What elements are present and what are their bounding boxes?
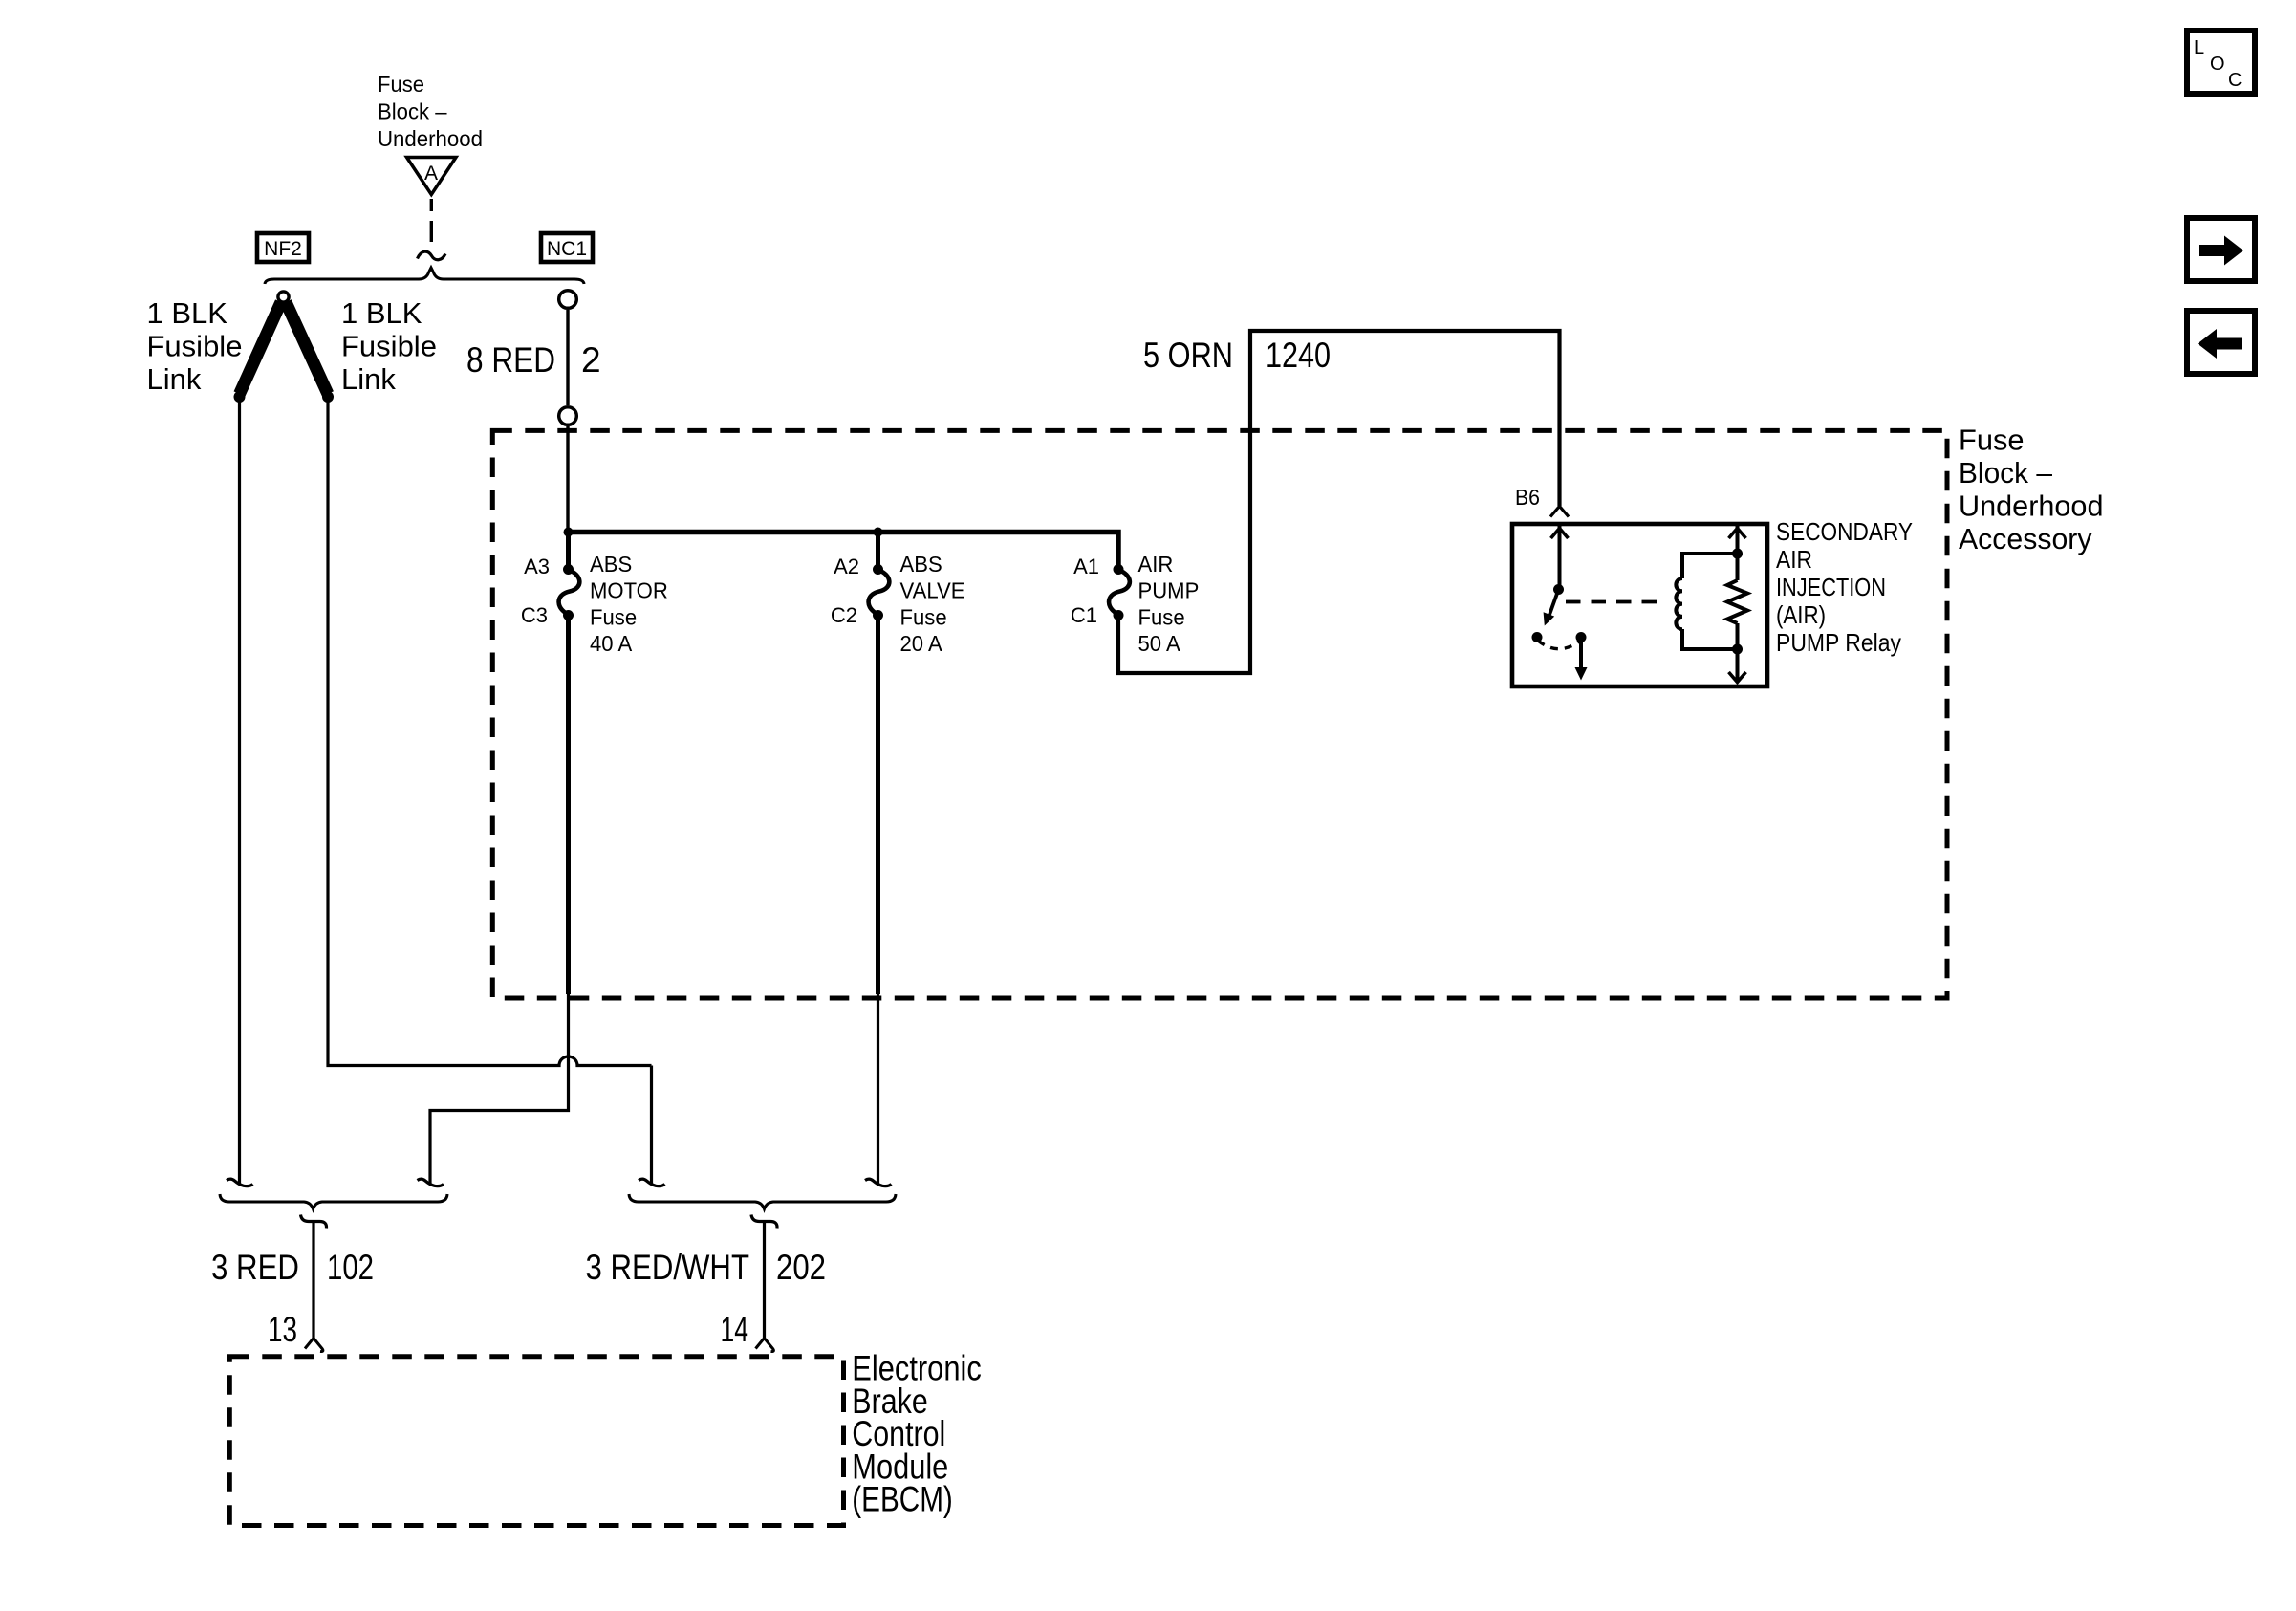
LOC icon box bbox=[2187, 31, 2255, 94]
svg-text:202: 202 bbox=[776, 1248, 826, 1287]
svg-text:NC1: NC1 bbox=[547, 238, 587, 260]
svg-text:AIR: AIR bbox=[1776, 545, 1812, 574]
connector caret 14 bbox=[756, 1339, 774, 1352]
svg-text:(EBCM): (EBCM) bbox=[852, 1480, 953, 1519]
NC1 upper terminal circle bbox=[559, 291, 577, 309]
svg-text:Fuse: Fuse bbox=[900, 604, 947, 629]
label ABS MOTOR Fuse 40 A bbox=[590, 552, 668, 656]
svg-text:8 RED: 8 RED bbox=[466, 340, 555, 380]
fuse ABS VALVE bottom dot C2 bbox=[873, 610, 883, 620]
svg-text:(AIR): (AIR) bbox=[1776, 600, 1826, 629]
svg-text:L: L bbox=[2194, 37, 2204, 58]
svg-text:3 RED/WHT: 3 RED/WHT bbox=[586, 1248, 750, 1287]
wire 3 RED 102 bbox=[312, 1222, 314, 1339]
wire C3 continues to 102 group bbox=[430, 994, 569, 1185]
fuse ABS MOTOR S-element bbox=[559, 570, 580, 615]
svg-text:INJECTION: INJECTION bbox=[1776, 573, 1886, 601]
svg-text:A2: A2 bbox=[834, 555, 859, 578]
svg-text:C: C bbox=[2228, 70, 2242, 91]
svg-text:3 RED: 3 RED bbox=[211, 1248, 299, 1287]
bus junction dot A3 bbox=[564, 528, 574, 537]
right arrow icon box bbox=[2187, 218, 2255, 281]
relay second contact dot bbox=[1576, 632, 1587, 642]
fuse block underhood accessory dashed box bbox=[492, 430, 1947, 998]
svg-text:PUMP Relay: PUMP Relay bbox=[1776, 628, 1901, 657]
svg-text:C1: C1 bbox=[1071, 603, 1097, 627]
svg-text:MOTOR: MOTOR bbox=[590, 578, 668, 603]
fuse A3 stem bbox=[566, 533, 571, 567]
svg-text:1240: 1240 bbox=[1266, 336, 1331, 375]
svg-text:A3: A3 bbox=[524, 555, 550, 578]
svg-text:O: O bbox=[2210, 54, 2225, 75]
wire 3 RED/WHT 202 bbox=[763, 1222, 766, 1339]
fusible link right end dot bbox=[322, 391, 334, 403]
svg-text:102: 102 bbox=[327, 1248, 374, 1287]
relay dashed control line bbox=[1566, 600, 1667, 604]
svg-text:Link: Link bbox=[341, 362, 396, 396]
splice brace right (202) bbox=[629, 1194, 896, 1209]
fuse ABS MOTOR bottom dot C3 bbox=[563, 610, 574, 620]
wire from fuse C2 down (inside box) bbox=[876, 619, 880, 994]
svg-text:Underhood: Underhood bbox=[378, 126, 483, 151]
label Electronic Brake Control Module (EBCM) bbox=[852, 1349, 982, 1519]
relay resistor zigzag bbox=[1727, 580, 1747, 623]
svg-text:Fusible: Fusible bbox=[341, 330, 437, 363]
relay box bbox=[1512, 524, 1767, 686]
relay switch pivot dot bbox=[1553, 584, 1564, 595]
wire C2 continues to 202 group bbox=[877, 994, 879, 1185]
fuse AIR PUMP S-element bbox=[1109, 570, 1130, 615]
label SECONDARY AIR INJECTION (AIR) PUMP Relay bbox=[1776, 517, 1913, 657]
bus wire inside fuse block bbox=[569, 533, 1119, 567]
svg-text:A: A bbox=[424, 163, 438, 185]
svg-text:13: 13 bbox=[268, 1310, 297, 1349]
connector NC1 box bbox=[541, 233, 593, 262]
wire 8 RED circuit 2 bbox=[566, 310, 569, 405]
brace under NF2/NC1 (pointing up) bbox=[265, 268, 584, 284]
power tap triangle A bbox=[407, 158, 457, 195]
connector NF2 box bbox=[257, 233, 309, 262]
wire from right fusible link with crossover hump bbox=[328, 402, 652, 1066]
svg-text:14: 14 bbox=[721, 1310, 749, 1349]
fuse ABS VALVE S-element bbox=[869, 570, 890, 615]
svg-text:A1: A1 bbox=[1073, 555, 1099, 578]
label Fuse Block - Underhood Accessory bbox=[1959, 424, 2104, 556]
relay coil bumps bbox=[1676, 578, 1682, 629]
svg-text:Block –: Block – bbox=[378, 99, 447, 124]
fusible link left thick leg bbox=[240, 302, 282, 394]
relay bottom node dot bbox=[1732, 644, 1743, 655]
wire from fuse C3 down (inside box) bbox=[566, 619, 571, 994]
svg-text:ABS: ABS bbox=[590, 552, 632, 577]
label 1 BLK Fusible Link (right) bbox=[341, 296, 437, 396]
fuse AIR PUMP top dot A1 bbox=[1114, 564, 1124, 575]
svg-text:Fuse: Fuse bbox=[1138, 604, 1185, 629]
relay pin 5 lead with down arrow bbox=[1736, 649, 1740, 683]
svg-text:ABS: ABS bbox=[900, 552, 942, 577]
svg-text:50 A: 50 A bbox=[1138, 631, 1181, 656]
svg-text:Block –: Block – bbox=[1959, 456, 2053, 490]
fusible link circle bbox=[278, 292, 289, 302]
svg-text:Link: Link bbox=[147, 362, 202, 396]
fuse A2 stem bbox=[876, 533, 880, 567]
svg-text:Fusible: Fusible bbox=[147, 330, 243, 363]
NC1 lower terminal circle bbox=[559, 407, 577, 425]
left arrow icon box bbox=[2187, 311, 2255, 374]
label AIR PUMP Fuse 50 A bbox=[1138, 552, 1200, 656]
relay switch blade with arrowhead bbox=[1549, 590, 1559, 616]
splice brace left (102) bbox=[220, 1194, 447, 1209]
EBCM dashed box bbox=[229, 1357, 843, 1526]
connector bar at 102 bbox=[301, 1215, 327, 1229]
svg-text:1 BLK: 1 BLK bbox=[341, 296, 422, 330]
bus junction dot A2 bbox=[874, 528, 883, 537]
fuse ABS MOTOR top dot A3 bbox=[563, 564, 574, 575]
wire down to 202 group bbox=[650, 1066, 653, 1186]
dashed wire from triangle to bus brace bbox=[430, 199, 433, 211]
svg-text:5 ORN: 5 ORN bbox=[1143, 336, 1233, 375]
fusible link left end dot bbox=[234, 391, 246, 403]
svg-text:Underhood: Underhood bbox=[1959, 490, 2104, 523]
label 1 BLK Fusible Link (left) bbox=[147, 296, 243, 396]
svg-text:AIR: AIR bbox=[1138, 552, 1174, 577]
relay pin 1 lead with up arrow bbox=[1558, 526, 1562, 589]
fuse ABS VALVE top dot A2 bbox=[873, 564, 883, 575]
fuse AIR PUMP bottom dot C1 bbox=[1114, 610, 1124, 620]
label ABS VALVE Fuse 20 A bbox=[900, 552, 965, 656]
hook end bbox=[418, 1179, 444, 1186]
hook end left wire bbox=[227, 1179, 253, 1186]
wire into fuse block bbox=[566, 426, 569, 530]
relay top node dot bbox=[1732, 549, 1743, 559]
relay resistor leads bbox=[1736, 554, 1740, 649]
connector caret 13 bbox=[305, 1339, 323, 1352]
hook end bbox=[639, 1179, 665, 1186]
svg-text:1 BLK: 1 BLK bbox=[147, 296, 228, 330]
relay dashed throw arc bbox=[1538, 641, 1579, 649]
fusible link right thick leg bbox=[286, 302, 328, 394]
connector fork at B6 bbox=[1550, 507, 1569, 517]
svg-text:PUMP: PUMP bbox=[1138, 578, 1200, 603]
svg-text:SECONDARY: SECONDARY bbox=[1776, 517, 1913, 546]
hook end bbox=[865, 1179, 892, 1186]
svg-text:2: 2 bbox=[581, 340, 601, 380]
svg-text:40 A: 40 A bbox=[590, 631, 633, 656]
wire C1 to relay B6 (5 ORN 1240 net) bbox=[1118, 331, 1560, 673]
svg-text:Accessory: Accessory bbox=[1959, 522, 2092, 555]
relay coil branch bbox=[1682, 554, 1738, 649]
label Fuse Block - Underhood (top header) bbox=[378, 72, 483, 151]
relay output lead with down arrow bbox=[1579, 638, 1583, 668]
svg-text:NF2: NF2 bbox=[264, 238, 302, 260]
connector bar at 202 bbox=[751, 1215, 777, 1229]
wire from left fusible link down bbox=[238, 402, 241, 1185]
svg-text:C3: C3 bbox=[521, 603, 548, 627]
svg-text:Fuse: Fuse bbox=[590, 604, 637, 629]
relay fixed contact dot bbox=[1532, 632, 1543, 642]
continuation squiggle bbox=[418, 251, 446, 260]
svg-text:Fuse: Fuse bbox=[378, 72, 424, 97]
svg-text:20 A: 20 A bbox=[900, 631, 943, 656]
svg-text:B6: B6 bbox=[1515, 485, 1540, 510]
relay pin 2 lead with up arrow bbox=[1736, 526, 1740, 554]
svg-text:Fuse: Fuse bbox=[1959, 424, 2025, 457]
svg-text:VALVE: VALVE bbox=[900, 578, 965, 603]
svg-text:C2: C2 bbox=[831, 603, 857, 627]
